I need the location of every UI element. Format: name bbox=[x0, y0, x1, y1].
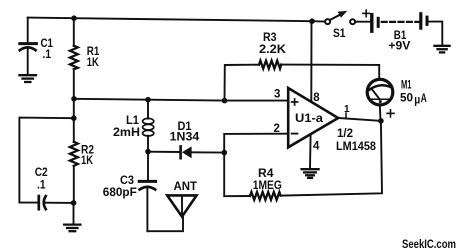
svg-text:S1: S1 bbox=[333, 26, 346, 40]
op-amp U1-a bbox=[288, 88, 338, 147]
wire pin1 tick bbox=[345, 113, 347, 119]
antenna ANT bbox=[167, 195, 196, 216]
label B1 +9V bbox=[388, 28, 410, 53]
node C2 branch tee bbox=[71, 115, 77, 121]
wire pin4 to ground bbox=[309, 134, 312, 168]
wire op-amp output bbox=[338, 118, 381, 121]
ground (op-amp pin4) bbox=[302, 169, 319, 178]
svg-text:50: 50 bbox=[400, 90, 413, 104]
resistor R2 bbox=[70, 142, 78, 203]
wire R4 to output bbox=[281, 121, 382, 196]
svg-text:U1-a: U1-a bbox=[295, 111, 323, 125]
svg-text:2.2K: 2.2K bbox=[259, 42, 286, 56]
wire mid rail to op-amp pin3 bbox=[74, 99, 288, 101]
svg-text:ANT: ANT bbox=[174, 179, 198, 193]
meter M1 bbox=[367, 79, 393, 118]
label S1 bbox=[333, 26, 346, 40]
label + (meter polarity) bbox=[387, 110, 394, 117]
wire C1 top stub bbox=[27, 18, 29, 43]
label ANT bbox=[174, 179, 198, 193]
svg-text:1K: 1K bbox=[87, 55, 99, 69]
label R1 1K bbox=[87, 44, 100, 69]
wire R3 to meter top bbox=[281, 65, 379, 78]
label L1 2mH bbox=[113, 113, 140, 139]
label R3 2.2K bbox=[259, 30, 286, 56]
label C1 .1 bbox=[41, 36, 54, 61]
svg-text:4: 4 bbox=[313, 141, 320, 153]
resistor R1 bbox=[70, 18, 78, 99]
node output/meter junction bbox=[378, 118, 384, 124]
node R2/C2 ground junction bbox=[71, 200, 77, 206]
node L1 top bbox=[145, 97, 151, 103]
ground (under R2) bbox=[64, 203, 80, 231]
node L1/D1/C3 junction bbox=[145, 149, 151, 155]
wire C2 branch top bbox=[19, 118, 73, 203]
svg-text:1MEG: 1MEG bbox=[253, 178, 282, 192]
svg-text:2mH: 2mH bbox=[113, 125, 140, 139]
label R4 1MEG bbox=[253, 166, 282, 192]
svg-text:3: 3 bbox=[274, 88, 280, 100]
label U1-a bbox=[295, 111, 323, 125]
label C2 .1 bbox=[35, 165, 48, 191]
wire pin8 riser bbox=[310, 21, 312, 101]
label 1/2 LM1458 bbox=[336, 126, 376, 153]
wire bottom loop to antenna bbox=[147, 217, 183, 231]
resistor R4 bbox=[250, 192, 281, 200]
svg-text:+9V: +9V bbox=[388, 39, 410, 53]
wire pin2 input / feedback loop bbox=[224, 134, 288, 197]
svg-text:1: 1 bbox=[344, 104, 350, 115]
node S1/pin8 junction bbox=[309, 18, 315, 24]
label + (battery polarity) bbox=[363, 10, 370, 17]
wire R3 branch riser bbox=[225, 65, 260, 101]
wire R1R2 column bbox=[73, 99, 75, 142]
inductor L1 bbox=[143, 100, 154, 152]
wire battery to ground bbox=[429, 22, 443, 45]
svg-text:A: A bbox=[421, 91, 427, 105]
resistor R3 bbox=[259, 61, 281, 69]
svg-text:.1: .1 bbox=[37, 177, 46, 191]
label pin numbers 3 2 8 4 1 bbox=[274, 88, 351, 152]
svg-text:680pF: 680pF bbox=[103, 185, 137, 199]
battery B1 bbox=[372, 14, 427, 31]
ground (under C1) bbox=[19, 75, 36, 82]
capacitor C3 bbox=[139, 152, 155, 232]
label M1 50uA bbox=[400, 78, 427, 107]
ground (battery) bbox=[435, 46, 450, 53]
capacitor C1 bbox=[20, 44, 37, 75]
svg-text:8: 8 bbox=[313, 92, 320, 104]
svg-text:μ: μ bbox=[414, 95, 420, 107]
svg-text:.1: .1 bbox=[43, 47, 52, 61]
capacitor C2 bbox=[39, 196, 74, 209]
svg-text:1N34: 1N34 bbox=[170, 130, 200, 144]
label R2 1K bbox=[81, 143, 94, 168]
label D1 1N34 bbox=[170, 119, 200, 143]
node mid-rail left bbox=[71, 96, 77, 102]
svg-text:LM1458: LM1458 bbox=[336, 139, 376, 153]
node D1/feedback tee bbox=[222, 150, 228, 156]
svg-text:1K: 1K bbox=[81, 153, 93, 167]
diode D1 1N34 bbox=[148, 146, 225, 158]
node pin3/R3 junction bbox=[222, 98, 228, 104]
switch S1 bbox=[312, 11, 372, 24]
label C3 680pF bbox=[103, 173, 137, 199]
node top-rail / R1 junction bbox=[71, 15, 77, 21]
wire top rail bbox=[28, 18, 312, 22]
svg-text:SeekIC.com: SeekIC.com bbox=[402, 239, 456, 251]
